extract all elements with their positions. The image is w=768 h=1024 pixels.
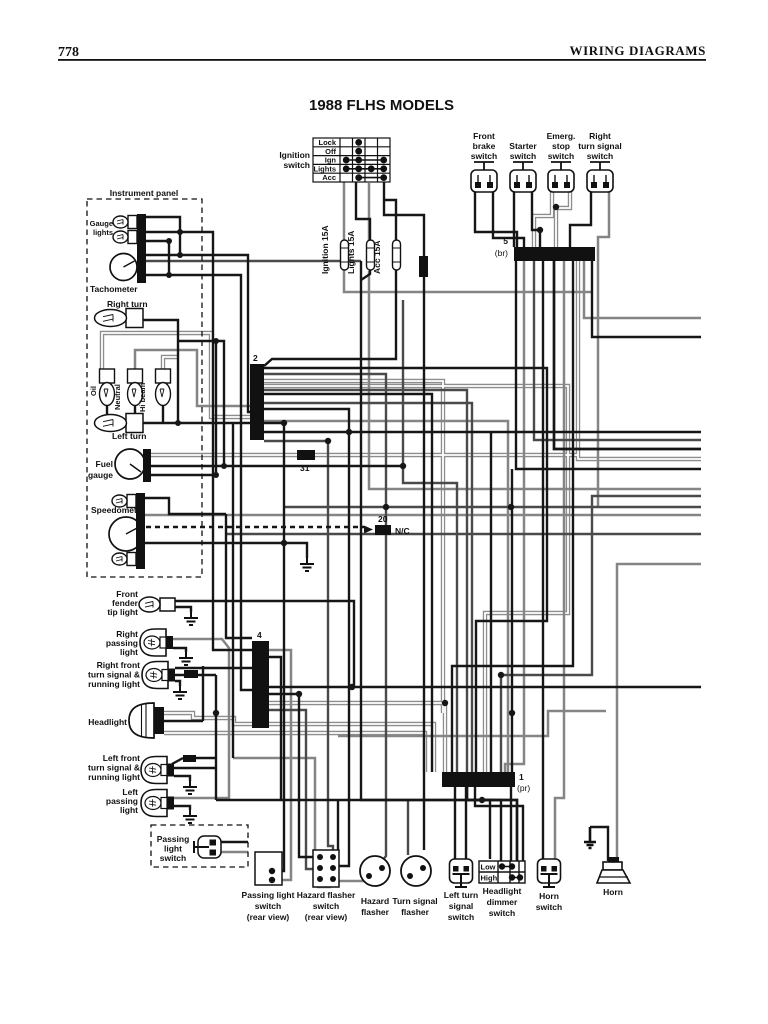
svg-text:Leftpassinglight: Leftpassinglight [106,787,138,815]
svg-text:Acc: Acc [322,173,336,182]
svg-text:Headlightdimmerswitch: Headlightdimmerswitch [483,886,522,918]
svg-text:Low: Low [481,863,496,872]
svg-text:Ignitionswitch: Ignitionswitch [279,150,310,170]
svg-text:Ign: Ign [325,156,337,165]
svg-text:Headlight: Headlight [88,717,127,727]
svg-text:Right turn: Right turn [107,299,148,309]
svg-text:Speedometer: Speedometer [91,505,146,515]
svg-text:Rightturn signalswitch: Rightturn signalswitch [578,131,621,161]
svg-text:1: 1 [519,772,524,782]
svg-text:Frontbrakeswitch: Frontbrakeswitch [471,131,497,161]
svg-text:Rightpassinglight: Rightpassinglight [106,629,138,657]
svg-text:Gaugelights: Gaugelights [90,219,113,237]
svg-text:778: 778 [58,45,79,60]
svg-text:Lock: Lock [318,138,336,147]
svg-text:Tachometer: Tachometer [90,284,138,294]
svg-text:Starterswitch: Starterswitch [509,141,537,161]
svg-text:Hornswitch: Hornswitch [536,891,562,912]
svg-text:Right frontturn signal &runnin: Right frontturn signal &running light [88,660,140,689]
svg-text:20: 20 [378,514,388,524]
svg-text:Instrument panel: Instrument panel [110,188,178,198]
svg-text:Hazardflasher: Hazardflasher [361,896,390,917]
svg-text:(br): (br) [495,248,508,258]
svg-text:1988 FLHS MODELS: 1988 FLHS MODELS [309,97,454,114]
svg-text:Oil: Oil [89,386,98,396]
svg-text:Off: Off [325,147,336,156]
svg-text:Passing lightswitch(rear view): Passing lightswitch(rear view) [242,890,295,922]
svg-text:Ignition 15A: Ignition 15A [320,225,330,274]
svg-text:Lights 15A: Lights 15A [346,231,356,274]
svg-text:Emerg.stopswitch: Emerg.stopswitch [547,131,576,161]
svg-text:Left turnsignalswitch: Left turnsignalswitch [444,890,478,922]
svg-text:4: 4 [257,630,262,640]
svg-text:Horn: Horn [603,887,623,897]
svg-text:2: 2 [253,353,258,363]
svg-text:Hazard flasherswitch(rear view: Hazard flasherswitch(rear view) [297,890,356,922]
svg-text:Passinglightswitch: Passinglightswitch [157,834,190,863]
svg-text:(pr): (pr) [517,783,530,793]
svg-text:5: 5 [503,236,508,246]
svg-text:N/C: N/C [395,526,410,536]
svg-text:Hi beam: Hi beam [138,382,147,412]
svg-text:High: High [481,874,498,883]
svg-text:Left turn: Left turn [112,431,146,441]
svg-text:Lights: Lights [314,164,337,173]
svg-text:Neutral: Neutral [113,384,122,410]
svg-text:Turn signalflasher: Turn signalflasher [392,896,437,917]
svg-text:Left frontturn signal &running: Left frontturn signal &running light [88,753,140,782]
svg-text:Fuelgauge: Fuelgauge [88,459,113,480]
svg-text:31: 31 [300,463,310,473]
svg-text:WIRING DIAGRAMS: WIRING DIAGRAMS [570,43,706,58]
svg-text:Frontfendertip light: Frontfendertip light [107,589,138,617]
svg-text:Acc 15A: Acc 15A [372,240,382,274]
